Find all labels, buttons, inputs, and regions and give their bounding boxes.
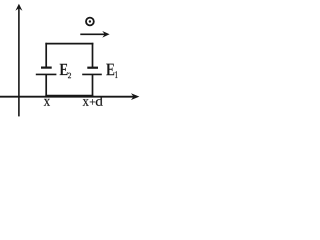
battery E2 long plate <box>36 73 57 75</box>
wire: right side lower segment <box>92 74 94 96</box>
wire: loop top side <box>45 43 93 45</box>
x-axis <box>0 93 139 100</box>
battery E1 long plate <box>82 73 102 75</box>
label x <box>44 99 50 106</box>
wire: loop bottom side (overlaps x-axis) <box>45 95 93 97</box>
label E2 <box>60 64 68 75</box>
wire: left side lower segment <box>45 74 47 96</box>
y-axis <box>15 4 22 117</box>
velocity arrow <box>80 31 109 38</box>
battery E1 short plate <box>87 67 98 69</box>
battery E2 short plate <box>41 66 52 68</box>
label E1 <box>106 64 114 76</box>
wire: left side upper segment <box>45 43 47 68</box>
wire: right side upper segment <box>92 43 94 68</box>
field out-of-page symbol (circled dot) <box>86 18 94 26</box>
label x+d <box>83 99 89 106</box>
background <box>0 0 144 124</box>
